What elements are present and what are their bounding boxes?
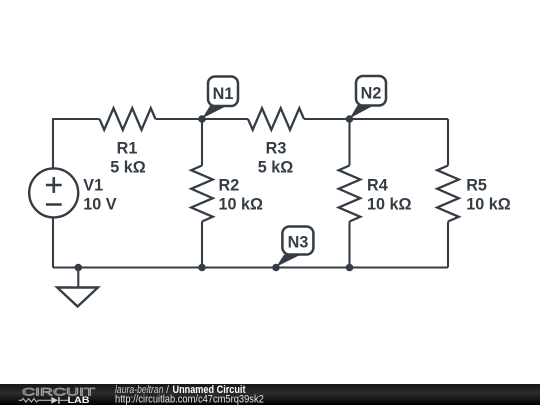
svg-text:R1: R1 [117,140,138,158]
svg-text:5 kΩ: 5 kΩ [110,159,146,177]
svg-text:R3: R3 [266,140,287,158]
resistor R1 [100,108,156,176]
junction dot R2 bottom [198,264,206,272]
node label N1 [202,77,238,119]
junction dot R4 bottom [346,264,354,272]
wire V1 bottom to bottom rail [52,217,54,267]
wire node N1 to R3 [202,118,248,120]
svg-text:http://circuitlab.com/c47cm5rq: http://circuitlab.com/c47cm5rq39sk2 [115,393,264,405]
node N3 dot [272,264,280,272]
wire node N2 to top-right corner [350,118,449,120]
svg-text:V1: V1 [83,177,103,195]
wire R3 to node N2 [304,118,350,120]
wire left vertical (top rail to V1 top) [53,119,100,169]
svg-text:N3: N3 [288,234,309,252]
node N1 dot [198,115,206,123]
svg-text:10 kΩ: 10 kΩ [367,196,412,214]
CircuitLab logo squiggle [19,399,52,403]
svg-text:R2: R2 [219,177,240,195]
svg-text:LAB: LAB [68,395,90,405]
resistor R4 [339,119,412,268]
bottom rail wire [53,266,448,268]
svg-text:R4: R4 [367,177,388,195]
footer bar [0,384,540,405]
svg-text:5 kΩ: 5 kΩ [258,159,294,177]
svg-text:10 kΩ: 10 kΩ [219,196,264,214]
node N2 dot [346,115,354,123]
resistor R2 [191,119,263,268]
wire R1 to node N1 [156,118,203,120]
node label N3 [276,227,313,267]
svg-text:10 kΩ: 10 kΩ [466,196,511,214]
resistor R5 [437,119,511,268]
CircuitLab logo diode [51,397,68,404]
svg-text:N2: N2 [361,85,382,103]
svg-text:N1: N1 [213,85,234,103]
voltage source V1 [29,168,117,217]
ground [57,268,98,307]
junction dot ground [75,264,83,272]
svg-text:10 V: 10 V [83,196,117,214]
resistor R3 [248,108,304,176]
node label N2 [350,76,386,118]
svg-text:R5: R5 [466,177,487,195]
